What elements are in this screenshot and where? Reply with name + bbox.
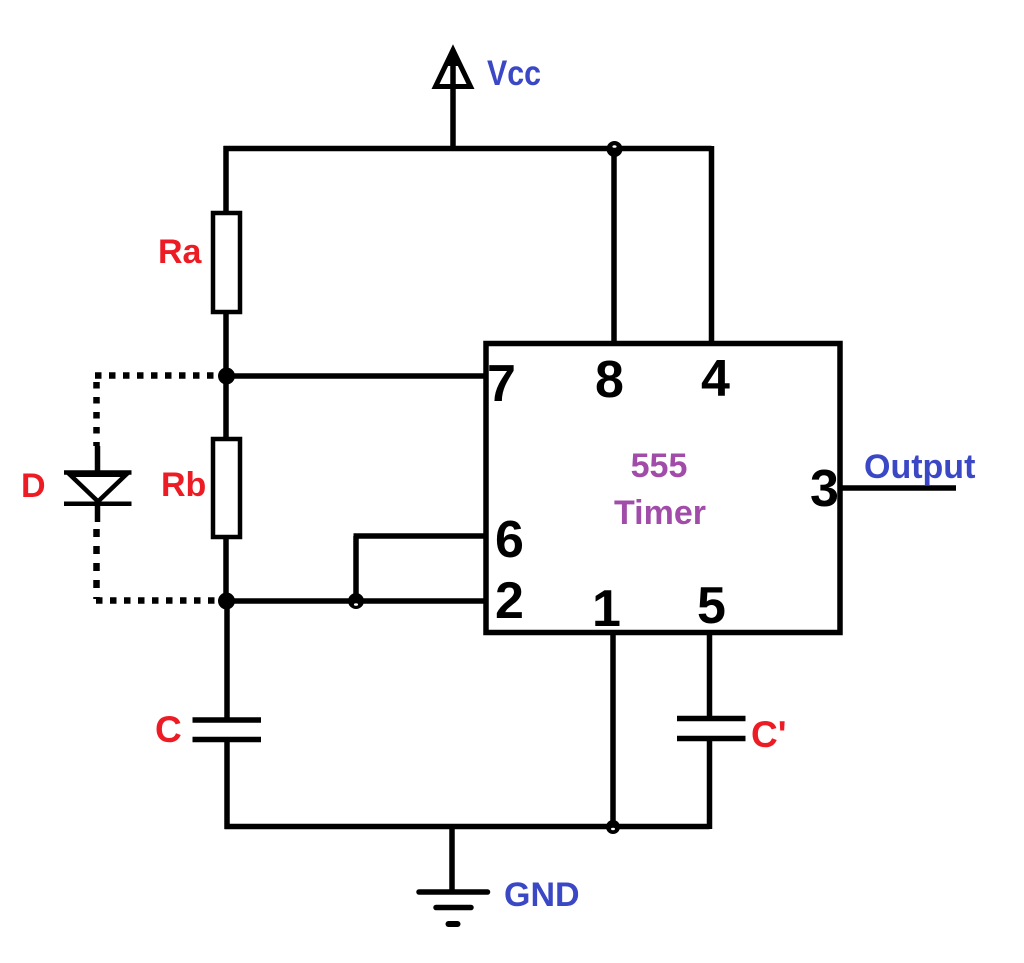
node A junction dot [218,368,235,385]
wire pin 4 to top rail [709,146,715,343]
svg-text:Rb: Rb [161,466,206,504]
svg-text:5: 5 [697,577,726,635]
diode D [64,446,132,522]
dotted wire diode top vertical [93,382,100,446]
wire node B to pin 2 [226,598,486,604]
wire output pin 3 [840,485,956,491]
node B junction dot [218,593,235,610]
wire pin 5 to capacitor C' [707,633,713,718]
wire pin 6 jog horizontal [354,533,487,539]
junction dot top rail [607,141,623,157]
wire Ra to node A [223,312,229,378]
ground symbol [419,892,488,924]
junction dot bottom rail [606,820,620,834]
wire node B down to capacitor C [224,601,230,720]
svg-text:C: C [155,709,182,750]
svg-text:Output: Output [864,448,975,486]
capacitor C [193,720,262,829]
svg-text:6: 6 [495,511,524,569]
wire top rail [224,146,712,152]
wire pin 8 to top rail [611,148,617,343]
dotted wire diode bottom vertical [93,529,100,599]
junction dot pin2/pin6 tap [348,593,364,609]
svg-text:GND: GND [504,876,580,914]
IC U1 555 timer [486,344,840,633]
dotted wire node A to diode top [95,372,218,379]
wire bottom rail [225,824,710,830]
svg-text:3: 3 [810,460,839,518]
dotted wire diode bottom to node B [96,597,218,604]
wire node A to Rb [223,376,229,440]
svg-text:2: 2 [495,572,524,630]
wire pin 6 jog vertical [353,536,359,601]
svg-text:8: 8 [595,351,624,409]
capacitor C' [677,719,746,830]
wire Rb to node B [223,537,229,603]
resistor Ra [213,213,240,312]
resistor Rb [213,439,240,537]
svg-text:Vcc: Vcc [487,54,541,93]
svg-text:D: D [21,467,46,505]
ground stem [449,824,455,892]
svg-text:C': C' [751,714,787,755]
svg-text:1: 1 [592,580,621,638]
power symbol Vcc [436,48,471,149]
svg-text:Timer: Timer [614,494,706,532]
svg-text:4: 4 [701,350,730,408]
svg-text:7: 7 [487,355,516,413]
wire pin 1 to bottom rail [610,633,616,827]
svg-text:555: 555 [631,447,688,485]
wire Vcc rail down to Ra [223,146,229,214]
svg-text:Ra: Ra [158,233,203,271]
wire node A to pin 7 [226,373,486,379]
